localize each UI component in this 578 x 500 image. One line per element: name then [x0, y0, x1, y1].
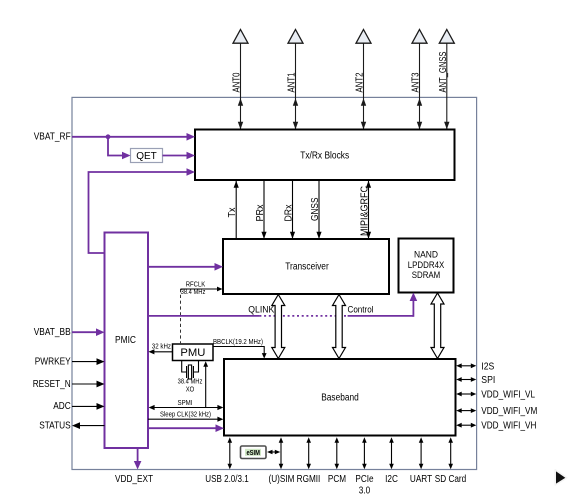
wire VBAT_BB [34, 327, 105, 338]
svg-text:QET: QET [136, 151, 157, 162]
wire PMIC to Transceiver power [148, 263, 223, 271]
svg-text:ANT0: ANT0 [232, 72, 243, 92]
wire USB 2.0/3.1 [205, 437, 249, 485]
svg-text:UART: UART [410, 474, 432, 485]
wire RFCLK dashed from PMU [181, 279, 223, 344]
svg-text:ADC: ADC [53, 401, 71, 412]
svg-text:QLINK: QLINK [248, 305, 275, 316]
wire SPMI branch to PMU [203, 361, 208, 407]
svg-text:SPI: SPI [481, 375, 495, 386]
svg-text:PCIe: PCIe [355, 474, 374, 485]
wire PMIC to Baseband power [148, 424, 224, 432]
antenna ANT1 [287, 30, 303, 130]
wire SPI [456, 375, 495, 386]
wire GNSS [310, 181, 322, 240]
svg-text:DRx: DRx [284, 205, 295, 222]
svg-text:PCM: PCM [328, 474, 346, 485]
wire VBAT_RF branch to QET [108, 137, 131, 160]
block Transceiver [223, 239, 389, 294]
svg-text:RESET_N: RESET_N [33, 379, 71, 390]
svg-text:STATUS: STATUS [39, 420, 71, 431]
wire QLINK power dashed PMIC to NAND [148, 293, 417, 317]
crystal 38.4 MHz XO [178, 361, 203, 394]
block Tx/Rx Blocks [195, 130, 455, 181]
node junction on VBAT_RF [106, 134, 111, 139]
antenna ANT0 [232, 30, 248, 130]
block eSIM [241, 446, 267, 459]
wire VBAT_RF to Tx/Rx [34, 132, 195, 143]
svg-text:eSIM: eSIM [246, 450, 260, 457]
svg-text:ANT1: ANT1 [287, 72, 298, 92]
svg-text:ANT_GNSS: ANT_GNSS [438, 51, 449, 92]
block NAND LPDDR4X SDRAM [399, 239, 454, 293]
svg-text:SPMI: SPMI [178, 398, 193, 407]
svg-text:USB 2.0/3.1: USB 2.0/3.1 [205, 474, 249, 485]
wire 32 kHz PMU to PMIC [148, 341, 172, 354]
antenna ANT2 [355, 30, 371, 130]
svg-text:VDD_WIFI_VM: VDD_WIFI_VM [481, 406, 537, 417]
wire Tx between Tx/Rx and Transceiver [227, 181, 239, 240]
svg-text:ANT3: ANT3 [411, 72, 422, 92]
svg-text:(U)SIM: (U)SIM [269, 474, 295, 485]
svg-text:38.4 MHz: 38.4 MHz [181, 287, 206, 296]
wire I2C [385, 437, 398, 485]
svg-text:Tx: Tx [227, 208, 238, 218]
svg-text:PMIC: PMIC [115, 335, 136, 346]
block Baseband [224, 359, 456, 436]
svg-text:Sleep CLK(32 kHz): Sleep CLK(32 kHz) [160, 410, 211, 419]
hollow arrow QLINK [248, 295, 285, 359]
wire Sleep CLK(32 kHz) [148, 410, 223, 422]
svg-text:NAND: NAND [414, 249, 438, 260]
wire PMIC to Tx/Rx power loop [89, 168, 196, 253]
svg-text:PRx: PRx [255, 205, 266, 222]
hollow arrow Control [333, 295, 374, 359]
wire DRx [284, 181, 296, 240]
svg-text:I2C: I2C [385, 474, 398, 485]
svg-text:Tx/Rx Blocks: Tx/Rx Blocks [300, 150, 349, 161]
svg-text:Control: Control [348, 305, 374, 316]
block QET [131, 149, 163, 163]
svg-text:Transceiver: Transceiver [285, 261, 329, 272]
wire BBCLK(19.2 MHz) PMU to Baseband [213, 337, 267, 359]
wire SD Card [435, 437, 467, 485]
svg-text:Baseband: Baseband [321, 392, 359, 403]
svg-text:3.0: 3.0 [359, 486, 371, 497]
outer boundary box [72, 97, 477, 469]
svg-text:VDD_WIFI_VH: VDD_WIFI_VH [481, 421, 536, 432]
wire VDD_WIFI_VM [456, 406, 537, 417]
wire UART [410, 437, 432, 485]
svg-text:GNSS: GNSS [310, 197, 321, 221]
svg-text:RGMII: RGMII [297, 474, 321, 485]
svg-text:VBAT_BB: VBAT_BB [34, 327, 71, 338]
wire RGMII [297, 437, 321, 485]
svg-text:LPDDR4X: LPDDR4X [408, 260, 445, 271]
wire RESET_N [33, 379, 105, 390]
svg-text:SDRAM: SDRAM [412, 270, 441, 281]
wire I2S [456, 361, 494, 372]
wire eSIM to (U)SIM [267, 450, 280, 455]
svg-text:ANT2: ANT2 [355, 72, 366, 92]
svg-text:VDD_EXT: VDD_EXT [115, 474, 153, 485]
svg-text:PMU: PMU [180, 347, 205, 359]
wire (U)SIM [269, 437, 295, 485]
wire PCM [328, 437, 346, 485]
wire PCIe 3.0 [355, 437, 374, 496]
wire SPMI PMIC-Baseband [149, 398, 224, 410]
svg-text:VBAT_RF: VBAT_RF [34, 132, 71, 143]
svg-text:SD Card: SD Card [435, 474, 467, 485]
svg-text:BBCLK(19.2 MHz): BBCLK(19.2 MHz) [213, 337, 263, 346]
svg-text:I2S: I2S [481, 361, 494, 372]
wire ADC [53, 401, 104, 412]
wire PWRKEY [35, 356, 105, 367]
wire VDD_WIFI_VH [456, 421, 536, 432]
antenna ANT_GNSS [438, 30, 454, 130]
block PMIC [105, 233, 149, 449]
antenna ANT3 [411, 30, 427, 130]
block PMU [173, 344, 214, 361]
wire VDD_WIFI_VL [456, 390, 535, 401]
cursor pointer bottom right [555, 470, 567, 485]
wire PRx [255, 181, 267, 240]
svg-text:VDD_WIFI_VL: VDD_WIFI_VL [481, 390, 535, 401]
svg-text:XO: XO [186, 385, 195, 394]
wire MIPI&GRFC [360, 181, 372, 240]
svg-text:MIPI&GRFC: MIPI&GRFC [360, 186, 371, 236]
svg-text:32 kHz: 32 kHz [152, 341, 171, 350]
svg-text:PWRKEY: PWRKEY [35, 356, 71, 367]
wire QET to Tx/Rx [163, 152, 196, 160]
wire VDD_EXT [115, 448, 153, 485]
hollow arrow NAND-Baseband [431, 293, 444, 359]
wire STATUS [39, 420, 104, 431]
